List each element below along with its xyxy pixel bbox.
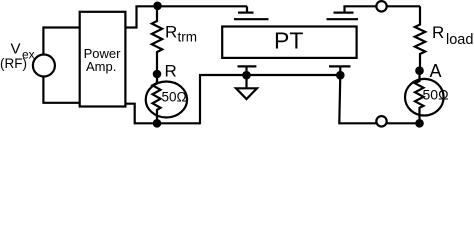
node junction A meter top — [415, 66, 424, 75]
capacitive probe top-right — [327, 6, 421, 19]
source Vex circle — [33, 55, 55, 77]
svg-text:PT: PT — [274, 28, 303, 54]
svg-text:50Ω: 50Ω — [423, 87, 449, 103]
wire mid rail — [199, 74, 341, 76]
svg-text:load: load — [446, 32, 473, 48]
label Rload — [432, 23, 473, 48]
wire source top — [43, 28, 79, 55]
meter R 50 ohm — [146, 74, 187, 123]
node junction top rail — [153, 2, 162, 11]
node junction A meter bottom — [415, 119, 424, 128]
wire amp output step — [125, 6, 247, 27]
node junction bottom left rail — [153, 119, 162, 128]
svg-text:A: A — [430, 61, 442, 81]
capacitive probe top-left — [234, 6, 269, 19]
svg-text:R: R — [432, 23, 444, 42]
svg-text:trm: trm — [178, 30, 198, 45]
svg-text:V: V — [11, 41, 21, 58]
node junction ground — [242, 71, 251, 80]
svg-text:Amp.: Amp. — [86, 59, 116, 74]
node junction R branch — [153, 70, 162, 79]
capacitive probe bottom-left — [238, 66, 257, 75]
svg-text:50Ω: 50Ω — [162, 89, 187, 104]
port circle bottom — [376, 116, 386, 126]
wire source bottom — [43, 76, 79, 103]
label Vex — [0, 41, 35, 72]
svg-text:(RF): (RF) — [0, 56, 27, 71]
meter A 50 ohm — [405, 71, 449, 124]
node junction bottom-right probe — [336, 71, 345, 80]
capacitive probe bottom-right — [329, 66, 351, 75]
wire amp bottom step — [125, 104, 200, 124]
label A — [430, 61, 442, 81]
power amp box — [80, 12, 126, 107]
ground — [236, 75, 257, 99]
label R — [165, 62, 177, 81]
resistor Rload — [415, 6, 425, 70]
svg-text:R: R — [165, 62, 177, 81]
resistor Rtrm — [152, 6, 162, 74]
label Power Amp. — [84, 46, 122, 74]
wire right riser down — [339, 75, 419, 123]
svg-text:R: R — [165, 23, 177, 42]
port circle top — [376, 1, 386, 11]
label Rtrm — [165, 23, 197, 45]
PT box — [222, 27, 356, 58]
wire riser to mid rail — [199, 75, 201, 124]
